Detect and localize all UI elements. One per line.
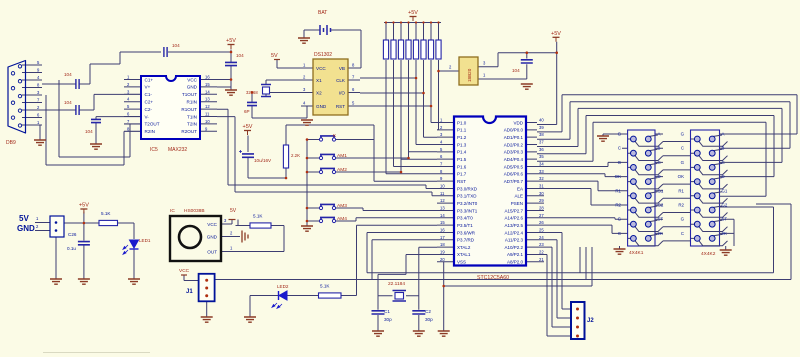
svg-text:C26: C26 xyxy=(68,232,77,237)
svg-text:23: 23 xyxy=(539,242,544,247)
svg-text:104: 104 xyxy=(85,129,93,134)
svg-text:18B20: 18B20 xyxy=(467,68,472,82)
svg-text:10u/16V: 10u/16V xyxy=(254,158,272,163)
svg-text:C1-: C1- xyxy=(145,92,153,97)
svg-text:R1OUT: R1OUT xyxy=(181,107,197,112)
svg-text:VDD: VDD xyxy=(513,120,523,125)
svg-text:R1: R1 xyxy=(615,188,621,193)
svg-text:C: C xyxy=(681,146,684,151)
svg-text:15: 15 xyxy=(205,82,210,87)
svg-text:IC: IC xyxy=(170,208,175,214)
svg-text:13: 13 xyxy=(205,97,210,102)
svg-text:R2IN: R2IN xyxy=(145,129,155,134)
svg-text:G: G xyxy=(681,160,685,165)
svg-text:10: 10 xyxy=(440,183,445,188)
svg-text:P1.0: P1.0 xyxy=(457,120,467,125)
svg-text:AD2/P0.2: AD2/P0.2 xyxy=(504,142,524,147)
svg-text:B: B xyxy=(722,146,725,151)
svg-text:VCC: VCC xyxy=(316,66,326,71)
svg-text:AM1: AM1 xyxy=(337,153,347,159)
svg-text:G: G xyxy=(681,132,685,137)
svg-text:R1IN: R1IN xyxy=(187,100,197,105)
svg-text:A: A xyxy=(658,132,661,137)
svg-text:VCC: VCC xyxy=(179,268,190,274)
svg-text:IC5: IC5 xyxy=(150,147,158,153)
svg-text:CLK: CLK xyxy=(336,78,346,83)
svg-text:22: 22 xyxy=(539,249,544,254)
svg-text:20: 20 xyxy=(440,257,445,262)
svg-text:19: 19 xyxy=(440,249,445,254)
svg-text:C: C xyxy=(658,160,661,165)
svg-text:P1.7: P1.7 xyxy=(457,172,467,177)
svg-text:G1: G1 xyxy=(722,188,728,193)
svg-text:G2: G2 xyxy=(658,203,664,208)
svg-text:12: 12 xyxy=(440,198,445,203)
svg-text:5.1K: 5.1K xyxy=(253,214,263,219)
svg-text:V-: V- xyxy=(145,114,150,119)
svg-text:+5V: +5V xyxy=(79,203,89,209)
svg-text:4X4K2: 4X4K2 xyxy=(701,251,716,257)
svg-text:P1.2: P1.2 xyxy=(457,135,467,140)
svg-text:27: 27 xyxy=(539,213,544,218)
svg-text:C2+: C2+ xyxy=(145,100,154,105)
svg-text:104: 104 xyxy=(512,68,520,73)
svg-text:P3.2/INT0: P3.2/INT0 xyxy=(457,201,478,206)
svg-text:22.1184: 22.1184 xyxy=(388,281,405,287)
svg-text:P1.5: P1.5 xyxy=(457,157,467,162)
svg-text:A15/P2.7: A15/P2.7 xyxy=(504,208,523,213)
svg-text:GND: GND xyxy=(17,224,35,233)
svg-text:C1+: C1+ xyxy=(145,77,154,82)
svg-text:+5V: +5V xyxy=(551,31,561,37)
svg-text:A14/P2.6: A14/P2.6 xyxy=(504,216,523,221)
svg-text:R1: R1 xyxy=(678,188,684,193)
svg-text:25: 25 xyxy=(539,227,544,232)
svg-text:2.2K: 2.2K xyxy=(291,153,300,158)
svg-text:18: 18 xyxy=(440,242,445,247)
svg-text:R2: R2 xyxy=(615,203,621,208)
svg-text:A13/P2.5: A13/P2.5 xyxy=(504,223,523,228)
svg-text:P1.1: P1.1 xyxy=(457,128,467,133)
svg-text:5V: 5V xyxy=(19,214,29,223)
svg-text:A: A xyxy=(722,132,725,137)
svg-text:28: 28 xyxy=(539,205,544,210)
svg-text:ALE: ALE xyxy=(514,194,523,199)
svg-text:EA: EA xyxy=(517,186,523,191)
svg-text:40: 40 xyxy=(539,118,544,123)
svg-text:P3.5/T1: P3.5/T1 xyxy=(457,223,473,228)
svg-text:RST: RST xyxy=(336,104,345,109)
svg-text:ST: ST xyxy=(658,217,664,222)
svg-text:OUT: OUT xyxy=(207,250,217,255)
svg-text:P3.3/INT1: P3.3/INT1 xyxy=(457,208,478,213)
svg-text:AD0/P0.0: AD0/P0.0 xyxy=(504,128,524,133)
svg-text:VB: VB xyxy=(339,66,345,71)
svg-text:C2: C2 xyxy=(425,309,431,314)
svg-text:C: C xyxy=(681,231,684,236)
svg-text:P3.6/WR: P3.6/WR xyxy=(457,230,476,235)
svg-text:XTAL2: XTAL2 xyxy=(457,245,471,250)
svg-text:34: 34 xyxy=(539,161,544,166)
svg-text:VCC: VCC xyxy=(187,77,197,82)
svg-text:A12/P2.4: A12/P2.4 xyxy=(504,230,523,235)
svg-text:T2OUT: T2OUT xyxy=(145,122,160,127)
svg-text:ST: ST xyxy=(722,217,728,222)
svg-text:I/O: I/O xyxy=(339,91,346,96)
svg-text:2K: 2K xyxy=(722,231,727,236)
svg-text:X2: X2 xyxy=(316,91,322,96)
svg-text:104: 104 xyxy=(172,43,180,48)
svg-text:G2: G2 xyxy=(722,203,728,208)
svg-text:A10/P2.2: A10/P2.2 xyxy=(504,245,523,250)
svg-text:MAX232: MAX232 xyxy=(168,147,187,153)
svg-text:OK: OK xyxy=(678,174,684,179)
svg-text:BAT: BAT xyxy=(318,10,327,16)
svg-text:STC12C5A60: STC12C5A60 xyxy=(477,275,509,281)
svg-text:39: 39 xyxy=(539,125,544,130)
svg-text:D: D xyxy=(722,174,725,179)
svg-text:32: 32 xyxy=(539,176,544,181)
svg-text:5V: 5V xyxy=(230,208,237,214)
svg-text:T1IN: T1IN xyxy=(187,114,197,119)
svg-text:G: G xyxy=(618,160,622,165)
svg-text:P3.0/RXD: P3.0/RXD xyxy=(457,186,478,191)
svg-text:+5V: +5V xyxy=(226,38,236,44)
svg-text:G1: G1 xyxy=(658,188,664,193)
svg-text:P1.3: P1.3 xyxy=(457,142,467,147)
svg-text:14: 14 xyxy=(440,213,445,218)
svg-text:A11/P2.3: A11/P2.3 xyxy=(505,238,524,243)
svg-text:14: 14 xyxy=(205,89,210,94)
svg-text:GND: GND xyxy=(187,85,198,90)
svg-text:0.1u: 0.1u xyxy=(67,246,76,251)
svg-text:30p: 30p xyxy=(384,317,392,322)
svg-text:12: 12 xyxy=(205,104,210,109)
svg-text:VCC: VCC xyxy=(207,222,217,227)
svg-text:B: B xyxy=(658,146,661,151)
svg-text:5.1K: 5.1K xyxy=(101,211,111,216)
svg-text:GND: GND xyxy=(316,104,327,109)
svg-text:G: G xyxy=(681,217,685,222)
svg-text:G: G xyxy=(618,132,622,137)
svg-text:LED1: LED1 xyxy=(139,238,151,243)
svg-text:AM2: AM2 xyxy=(337,167,347,173)
svg-text:HS0038B: HS0038B xyxy=(184,208,205,214)
svg-text:P1.6: P1.6 xyxy=(457,164,467,169)
svg-text:C: C xyxy=(722,160,725,165)
svg-text:T2IN: T2IN xyxy=(187,122,197,127)
svg-text:+5V: +5V xyxy=(408,10,418,16)
svg-text:J2: J2 xyxy=(587,318,594,324)
svg-text:31: 31 xyxy=(539,183,544,188)
svg-text:RST: RST xyxy=(457,179,466,184)
svg-text:P3.1/TXD: P3.1/TXD xyxy=(457,194,477,199)
svg-text:104: 104 xyxy=(64,72,72,77)
svg-text:DS1302: DS1302 xyxy=(314,52,332,58)
svg-text:R2OUT: R2OUT xyxy=(181,129,197,134)
svg-text:36: 36 xyxy=(539,147,544,152)
svg-text:35: 35 xyxy=(539,154,544,159)
svg-text:VSS: VSS xyxy=(457,260,466,265)
svg-text:DB9: DB9 xyxy=(6,140,16,146)
svg-text:16: 16 xyxy=(205,75,210,80)
svg-text:P3.4/T0: P3.4/T0 xyxy=(457,216,473,221)
svg-text:2K: 2K xyxy=(658,231,663,236)
svg-text:4X4K1: 4X4K1 xyxy=(629,250,644,256)
svg-text:38: 38 xyxy=(539,132,544,137)
svg-text:+5V: +5V xyxy=(243,124,253,130)
svg-text:P1.4: P1.4 xyxy=(457,150,467,155)
svg-text:G: G xyxy=(618,217,622,222)
svg-text:V+: V+ xyxy=(145,85,151,90)
svg-text:104: 104 xyxy=(236,53,244,58)
svg-text:29: 29 xyxy=(539,198,544,203)
svg-text:11: 11 xyxy=(440,191,445,196)
svg-text:13: 13 xyxy=(440,205,445,210)
svg-text:A8/P2.0: A8/P2.0 xyxy=(507,260,524,265)
svg-text:17: 17 xyxy=(440,235,445,240)
svg-text:37: 37 xyxy=(539,139,544,144)
svg-text:104: 104 xyxy=(64,100,72,105)
svg-text:11: 11 xyxy=(205,112,210,117)
svg-text:30: 30 xyxy=(539,191,544,196)
svg-text:AD4/P0.4: AD4/P0.4 xyxy=(504,157,524,162)
svg-text:30p: 30p xyxy=(425,317,433,322)
svg-text:33: 33 xyxy=(539,169,544,174)
svg-text:GND: GND xyxy=(207,235,218,240)
svg-text:5.1K: 5.1K xyxy=(320,284,330,289)
svg-text:21: 21 xyxy=(539,257,544,262)
svg-text:AD7/P0.7: AD7/P0.7 xyxy=(504,179,524,184)
svg-text:15: 15 xyxy=(440,220,445,225)
svg-text:C2-: C2- xyxy=(145,107,153,112)
svg-text:LED2: LED2 xyxy=(277,284,289,289)
svg-text:C1: C1 xyxy=(384,309,390,314)
svg-text:C: C xyxy=(618,146,621,151)
svg-text:XTAL1: XTAL1 xyxy=(457,252,471,257)
svg-text:A9/P2.1: A9/P2.1 xyxy=(507,252,524,257)
svg-text:T1OUT: T1OUT xyxy=(182,92,197,97)
svg-text:26: 26 xyxy=(539,220,544,225)
svg-text:R2: R2 xyxy=(678,203,684,208)
svg-text:AD1/P0.1: AD1/P0.1 xyxy=(504,135,524,140)
svg-text:AM3: AM3 xyxy=(337,203,347,209)
svg-text:AM4: AM4 xyxy=(337,216,347,222)
svg-text:AD6/P0.6: AD6/P0.6 xyxy=(504,172,524,177)
svg-text:AD5/P0.5: AD5/P0.5 xyxy=(504,164,524,169)
svg-text:P3.7/RD: P3.7/RD xyxy=(457,238,475,243)
svg-text:X1: X1 xyxy=(316,78,322,83)
svg-text:24: 24 xyxy=(539,235,544,240)
svg-text:10: 10 xyxy=(205,119,210,124)
svg-text:J1: J1 xyxy=(186,289,193,295)
svg-text:D: D xyxy=(658,174,661,179)
svg-text:AD3/P0.3: AD3/P0.3 xyxy=(504,150,524,155)
svg-text:PSEN: PSEN xyxy=(511,201,523,206)
svg-text:6P: 6P xyxy=(244,109,250,114)
svg-text:16: 16 xyxy=(440,227,445,232)
svg-text:OK: OK xyxy=(615,174,621,179)
svg-text:C: C xyxy=(618,231,621,236)
svg-text:5V: 5V xyxy=(271,53,278,59)
